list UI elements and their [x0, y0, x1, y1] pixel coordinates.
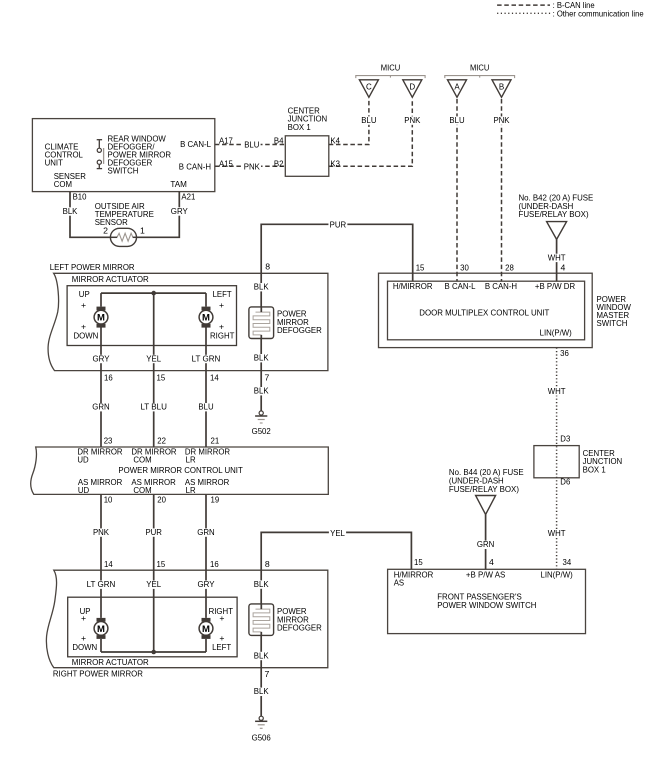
svg-text:PNK: PNK	[493, 115, 509, 125]
svg-text:B4: B4	[274, 135, 284, 145]
svg-text:15: 15	[157, 559, 166, 569]
svg-text:BLU: BLU	[361, 115, 376, 125]
svg-text:BLK: BLK	[254, 579, 269, 589]
svg-text:: Other communication line: : Other communication line	[553, 8, 644, 18]
svg-text:RIGHT: RIGHT	[210, 331, 235, 341]
svg-text:G502: G502	[252, 426, 271, 436]
svg-text:M: M	[97, 313, 105, 324]
svg-text:M: M	[202, 624, 210, 635]
svg-text:LIN(P/W): LIN(P/W)	[541, 570, 573, 580]
svg-text:BOX 1: BOX 1	[288, 122, 311, 132]
svg-text:RIGHT POWER MIRROR: RIGHT POWER MIRROR	[53, 668, 143, 678]
svg-text:B2: B2	[274, 159, 284, 169]
svg-text:PNK: PNK	[404, 115, 420, 125]
svg-text:C: C	[366, 82, 372, 91]
svg-text:D: D	[409, 82, 415, 91]
svg-text:28: 28	[505, 263, 514, 273]
svg-text:SWITCH: SWITCH	[597, 318, 628, 328]
svg-text:7: 7	[265, 373, 270, 383]
svg-text:A17: A17	[219, 135, 233, 145]
svg-text:A15: A15	[219, 159, 233, 169]
svg-text:B10: B10	[73, 192, 87, 202]
svg-text:4: 4	[489, 557, 494, 567]
svg-text:GRY: GRY	[93, 353, 110, 363]
svg-text:UD: UD	[77, 455, 88, 465]
svg-text:WHT: WHT	[548, 386, 566, 396]
svg-text:36: 36	[560, 348, 569, 358]
svg-text:10: 10	[104, 494, 113, 504]
svg-text:20: 20	[157, 494, 166, 504]
svg-text:SENSOR: SENSOR	[95, 217, 128, 227]
svg-text:WHT: WHT	[548, 252, 566, 262]
svg-text:LEFT: LEFT	[213, 289, 233, 299]
svg-text:D3: D3	[560, 434, 570, 444]
svg-text:BOX 1: BOX 1	[583, 464, 606, 474]
svg-text:A: A	[454, 82, 460, 91]
svg-text:+B P/W AS: +B P/W AS	[466, 570, 506, 580]
svg-text:15: 15	[414, 557, 423, 567]
svg-text:16: 16	[210, 559, 219, 569]
svg-text:PNK: PNK	[93, 527, 109, 537]
svg-text:8: 8	[265, 559, 270, 569]
svg-text:WHT: WHT	[548, 528, 566, 538]
svg-text:GRN: GRN	[197, 527, 214, 537]
svg-text:2: 2	[103, 226, 108, 236]
svg-text:B CAN-H: B CAN-H	[485, 281, 517, 291]
svg-text:B CAN-H: B CAN-H	[179, 161, 211, 171]
svg-text:B CAN-L: B CAN-L	[180, 139, 211, 149]
svg-text:LEFT: LEFT	[212, 642, 232, 652]
svg-text:M: M	[97, 624, 105, 635]
svg-text:15: 15	[416, 263, 425, 273]
svg-text:A21: A21	[181, 192, 195, 202]
svg-text:15: 15	[157, 373, 166, 383]
svg-text:GRY: GRY	[198, 579, 215, 589]
svg-text:LR: LR	[186, 455, 196, 465]
svg-text:PNK: PNK	[244, 161, 260, 171]
svg-text:BLK: BLK	[254, 353, 269, 363]
svg-text:BLK: BLK	[63, 206, 78, 216]
svg-text:FUSE/RELAY BOX): FUSE/RELAY BOX)	[519, 209, 589, 219]
svg-text:POWER WINDOW SWITCH: POWER WINDOW SWITCH	[437, 600, 536, 610]
svg-text:LT GRN: LT GRN	[87, 579, 116, 589]
svg-text:21: 21	[211, 435, 220, 445]
svg-text:B CAN-L: B CAN-L	[445, 281, 476, 291]
svg-text:+: +	[81, 613, 86, 623]
svg-text:M: M	[202, 313, 210, 324]
svg-text:MIRROR ACTUATOR: MIRROR ACTUATOR	[72, 657, 149, 667]
svg-text:LT GRN: LT GRN	[192, 353, 221, 363]
svg-text:16: 16	[104, 373, 113, 383]
svg-text:K4: K4	[330, 135, 340, 145]
svg-text:UNIT: UNIT	[45, 157, 64, 167]
svg-text:+: +	[81, 300, 86, 310]
svg-text:BLU: BLU	[244, 140, 259, 150]
svg-text:PUR: PUR	[330, 220, 347, 230]
svg-text:8: 8	[265, 261, 270, 271]
svg-text:4: 4	[561, 263, 566, 273]
svg-text:DOWN: DOWN	[74, 331, 99, 341]
svg-text:MICU: MICU	[470, 63, 490, 73]
svg-text:YEL: YEL	[146, 353, 161, 363]
svg-text:14: 14	[210, 373, 219, 383]
svg-text:UD: UD	[78, 485, 89, 495]
svg-text:MIRROR ACTUATOR: MIRROR ACTUATOR	[72, 274, 149, 284]
svg-text:DOOR MULTIPLEX CONTROL UNIT: DOOR MULTIPLEX CONTROL UNIT	[419, 307, 550, 317]
svg-text:23: 23	[104, 435, 113, 445]
svg-text:7: 7	[265, 669, 270, 679]
svg-text:LR: LR	[186, 485, 196, 495]
svg-text:19: 19	[211, 494, 220, 504]
svg-text:BLK: BLK	[254, 386, 269, 396]
svg-text:30: 30	[460, 263, 469, 273]
svg-text:TAM: TAM	[170, 179, 187, 189]
svg-text:COM: COM	[133, 485, 151, 495]
svg-text:34: 34	[563, 557, 572, 567]
svg-text:FUSE/RELAY BOX): FUSE/RELAY BOX)	[449, 484, 519, 494]
svg-text:AS: AS	[394, 578, 405, 588]
svg-text:1: 1	[140, 226, 145, 236]
svg-text:22: 22	[157, 435, 166, 445]
svg-text:K3: K3	[330, 159, 340, 169]
svg-text:COM: COM	[133, 455, 151, 465]
svg-text:SWITCH: SWITCH	[108, 165, 139, 175]
svg-text:GRN: GRN	[477, 539, 494, 549]
svg-text:LT BLU: LT BLU	[140, 402, 167, 412]
svg-text:MICU: MICU	[381, 63, 401, 73]
svg-text:PUR: PUR	[145, 527, 162, 537]
svg-text:D6: D6	[560, 477, 570, 487]
svg-text:+: +	[219, 613, 224, 623]
svg-text:+: +	[219, 300, 224, 310]
svg-text:H/MIRROR: H/MIRROR	[393, 281, 433, 291]
svg-text:DEFOGGER: DEFOGGER	[277, 623, 322, 633]
svg-text:BLU: BLU	[198, 402, 213, 412]
svg-text:GRN: GRN	[92, 402, 109, 412]
svg-text:14: 14	[104, 559, 113, 569]
svg-text:LIN(P/W): LIN(P/W)	[540, 328, 572, 338]
svg-text:DOWN: DOWN	[72, 642, 97, 652]
svg-text:+B P/W DR: +B P/W DR	[535, 281, 575, 291]
svg-text:BLK: BLK	[254, 650, 269, 660]
svg-text:G506: G506	[252, 732, 271, 742]
svg-text:BLK: BLK	[254, 686, 269, 696]
svg-text:GRY: GRY	[171, 206, 188, 216]
svg-text:COM: COM	[54, 179, 72, 189]
svg-text:DEFOGGER: DEFOGGER	[277, 325, 322, 335]
svg-text:YEL: YEL	[330, 528, 345, 538]
svg-text:UP: UP	[79, 289, 90, 299]
svg-text:B: B	[499, 82, 504, 91]
svg-text:YEL: YEL	[146, 579, 161, 589]
svg-text:POWER MIRROR CONTROL UNIT: POWER MIRROR CONTROL UNIT	[118, 465, 243, 475]
svg-text:BLU: BLU	[449, 115, 464, 125]
svg-text:LEFT POWER MIRROR: LEFT POWER MIRROR	[50, 262, 135, 272]
svg-text:BLK: BLK	[254, 282, 269, 292]
